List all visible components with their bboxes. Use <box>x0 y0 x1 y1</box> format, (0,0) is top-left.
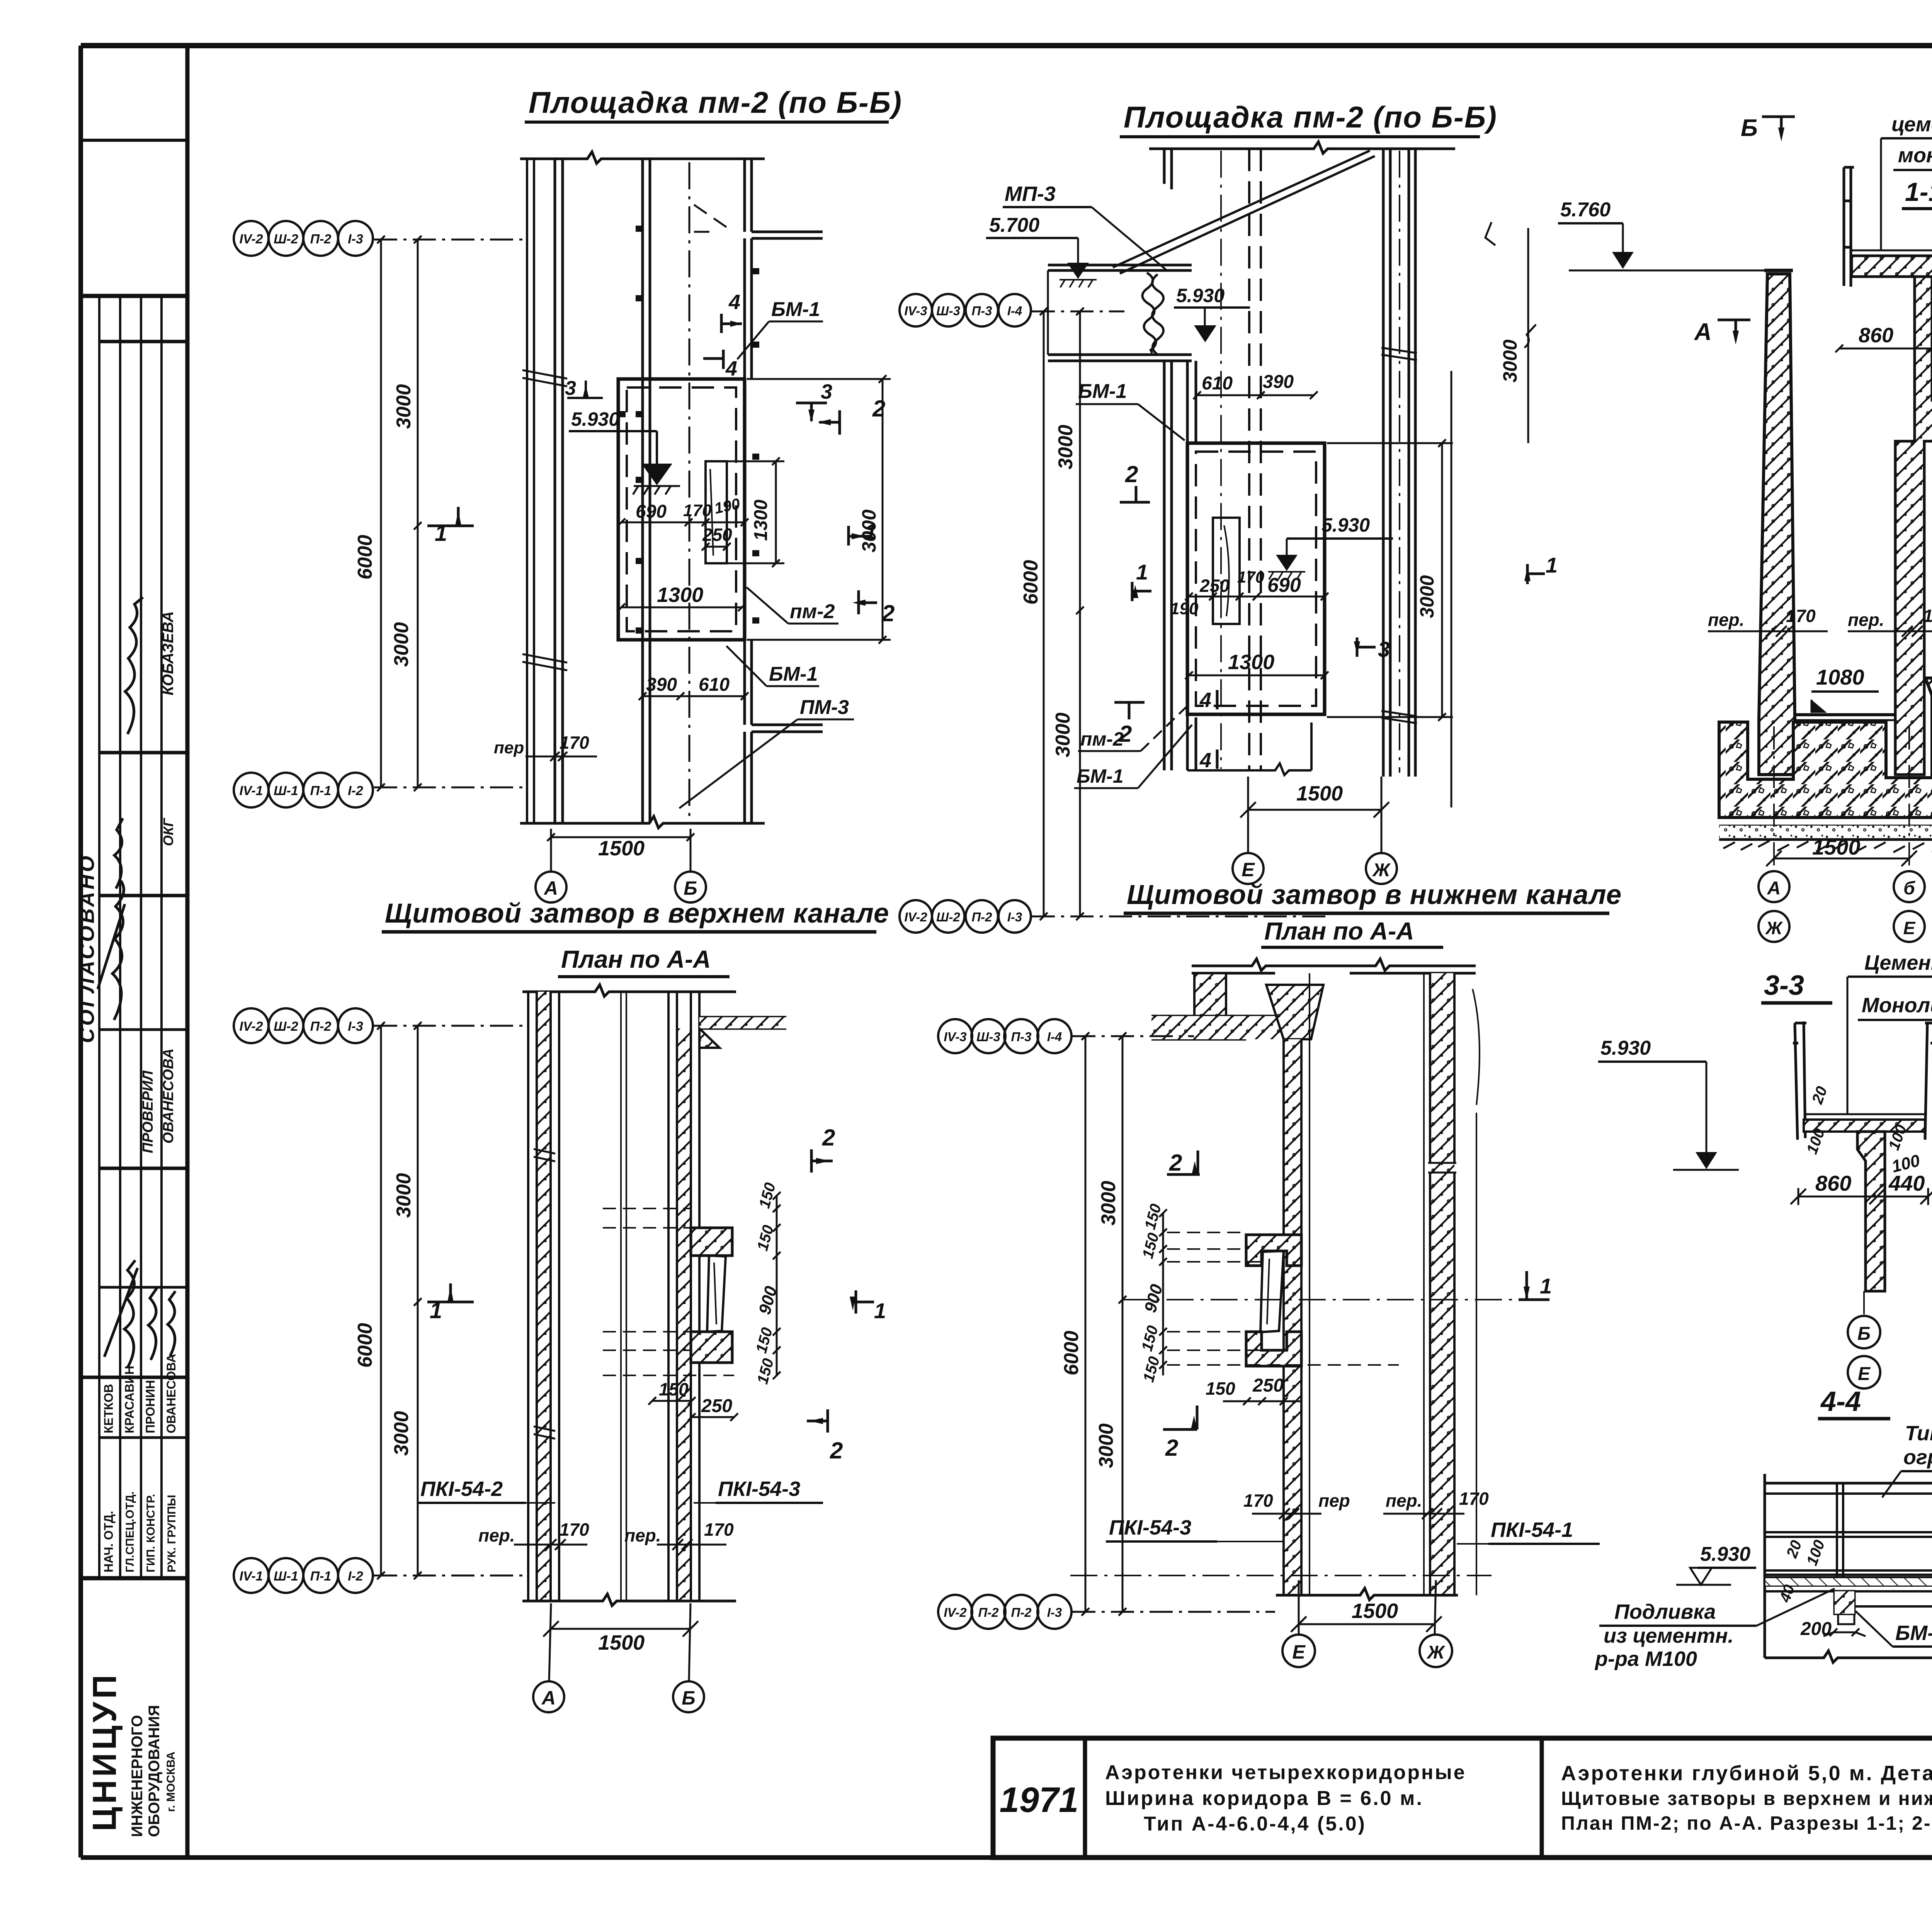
svg-text:б: б <box>1903 878 1915 899</box>
svg-text:1: 1 <box>1540 1274 1552 1298</box>
right wall <box>1383 149 1390 777</box>
svg-text:Е: Е <box>1242 859 1255 880</box>
1500 + axes <box>1291 1580 1442 1634</box>
svg-text:І-3: І-3 <box>348 232 363 246</box>
svg-text:А: А <box>1767 878 1781 899</box>
svg-text:170: 170 <box>1459 1489 1489 1509</box>
svg-text:1300: 1300 <box>657 583 703 607</box>
svg-text:ПКІ-54-3: ПКІ-54-3 <box>718 1477 800 1501</box>
svg-text:390: 390 <box>1263 372 1294 392</box>
svg-text:Типовое: Типовое <box>1905 1422 1932 1445</box>
platform solid rect <box>1187 443 1325 714</box>
svg-text:ОВАНЕСОВА: ОВАНЕСОВА <box>160 1049 177 1144</box>
steel channels on slab <box>1844 167 1932 287</box>
svg-text:250: 250 <box>1199 576 1230 596</box>
grid circles + dims left of view 1 <box>234 221 527 807</box>
svg-text:3000: 3000 <box>1416 575 1438 618</box>
svg-text:1500: 1500 <box>598 837 645 860</box>
svg-text:Щитовой затвор в нижнем канале: Щитовой затвор в нижнем канале <box>1127 880 1622 910</box>
svg-text:БМ-1: БМ-1 <box>1077 765 1124 787</box>
svg-text:Ш-1: Ш-1 <box>274 1569 298 1584</box>
svg-text:4: 4 <box>725 357 737 380</box>
svg-text:ОКГ: ОКГ <box>160 817 176 846</box>
svg-text:ІV-1: ІV-1 <box>239 1569 263 1584</box>
svg-text:1300: 1300 <box>1228 651 1274 674</box>
svg-text:КОБАЗЕВА: КОБАЗЕВА <box>160 611 177 695</box>
svg-text:150: 150 <box>1206 1378 1235 1399</box>
right wall <box>1430 973 1454 1595</box>
vertical dim 1300 right of opening <box>727 457 784 567</box>
svg-text:пер.: пер. <box>1848 610 1884 630</box>
svg-text:2: 2 <box>1165 1435 1178 1461</box>
svg-text:Ш-3: Ш-3 <box>936 304 960 318</box>
svg-text:Ш-1: Ш-1 <box>274 783 298 798</box>
top junction <box>1192 959 1476 973</box>
svg-text:4: 4 <box>728 291 740 314</box>
border frame <box>81 43 1932 48</box>
svg-text:І-3: І-3 <box>1047 1605 1062 1620</box>
svg-text:4: 4 <box>1199 688 1211 712</box>
1500 dim + axes <box>543 1603 698 1681</box>
svg-text:План по А-А: План по А-А <box>561 945 711 973</box>
svg-text:1-1: 1-1 <box>1905 177 1932 207</box>
svg-text:170: 170 <box>704 1519 734 1540</box>
walkway МП-3 <box>1048 265 1192 270</box>
stem with corbel <box>1857 1132 1885 1291</box>
svg-text:Аэротенки глубиной 5,0 м.: Аэротенки глубиной 5,0 м. Детали. <box>1561 1762 1932 1785</box>
steel channels <box>1793 1021 1932 1140</box>
svg-text:2: 2 <box>822 1125 835 1151</box>
svg-text:Площадка пм-2 (по Б-Б): Площадка пм-2 (по Б-Б) <box>1124 100 1497 134</box>
svg-text:Монолитн. ж.б. плита-100: Монолитн. ж.б. плита-100 <box>1862 994 1932 1017</box>
svg-text:План по А-А: План по А-А <box>1264 917 1414 945</box>
dashed detail lines to dim column <box>1167 1232 1399 1365</box>
channel invert lines <box>1795 713 1895 716</box>
svg-text:610: 610 <box>699 675 730 695</box>
svg-text:1080: 1080 <box>1816 665 1864 689</box>
svg-text:пм-2: пм-2 <box>790 600 835 623</box>
top break line <box>522 985 736 996</box>
svg-text:1: 1 <box>865 519 877 544</box>
svg-text:Ж: Ж <box>1765 918 1783 938</box>
svg-text:пер.: пер. <box>624 1525 661 1545</box>
svg-text:690: 690 <box>1267 574 1301 597</box>
svg-text:ІV-2: ІV-2 <box>904 910 927 924</box>
svg-text:6000: 6000 <box>1060 1331 1083 1375</box>
railing elevation <box>1765 1474 1932 1658</box>
svg-text:170: 170 <box>1786 606 1816 626</box>
svg-text:І-4: І-4 <box>1007 304 1022 318</box>
svg-text:5.930: 5.930 <box>1700 1543 1750 1565</box>
gate leaf <box>707 1256 726 1332</box>
svg-text:р-ра М100: р-ра М100 <box>1594 1647 1697 1671</box>
section marks right side <box>796 403 877 614</box>
svg-text:170: 170 <box>560 733 589 753</box>
svg-text:П-1: П-1 <box>310 1569 332 1584</box>
svg-text:П-2: П-2 <box>971 910 992 924</box>
svg-text:1971: 1971 <box>1000 1780 1079 1820</box>
svg-text:І-4: І-4 <box>1047 1030 1062 1044</box>
svg-text:Ширина коридора В = 6.0 м.: Ширина коридора В = 6.0 м. <box>1105 1787 1423 1810</box>
left wall <box>1284 1039 1301 1595</box>
platform ПМ-2 solid rect <box>618 379 745 640</box>
opening in platform <box>706 461 727 563</box>
svg-text:пер.: пер. <box>1708 610 1745 630</box>
svg-text:1500: 1500 <box>1352 1599 1398 1623</box>
svg-text:1: 1 <box>435 521 447 546</box>
svg-text:НАЧ. ОТД.: НАЧ. ОТД. <box>102 1511 116 1572</box>
svg-text:БМ-1: БМ-1 <box>771 298 820 321</box>
svg-text:Ж: Ж <box>1372 860 1391 880</box>
svg-text:І-3: І-3 <box>1007 910 1022 924</box>
svg-text:2: 2 <box>1169 1150 1182 1176</box>
foundation mass <box>1719 678 1932 817</box>
svg-text:5.760: 5.760 <box>1560 199 1611 221</box>
svg-text:г. МОСКВА: г. МОСКВА <box>165 1752 177 1812</box>
svg-text:П-2: П-2 <box>310 1019 332 1034</box>
svg-text:Б: Б <box>684 877 697 899</box>
svg-text:ОВАНЕСОВА: ОВАНЕСОВА <box>164 1354 178 1433</box>
БМ-1 block <box>1835 1591 1854 1614</box>
svg-text:2: 2 <box>1125 461 1138 487</box>
svg-text:1: 1 <box>874 1298 886 1323</box>
left wall top stub + flare <box>1194 973 1226 1016</box>
ground hatch <box>1723 841 1932 854</box>
left wall hatched <box>1759 274 1795 775</box>
svg-text:ІV-1: ІV-1 <box>239 783 263 798</box>
left wall lines <box>526 159 528 823</box>
svg-text:пер.: пер. <box>478 1525 515 1545</box>
svg-text:3000: 3000 <box>1097 1181 1120 1225</box>
svg-text:2: 2 <box>872 396 885 421</box>
level mark triangle <box>641 464 672 485</box>
svg-text:3000: 3000 <box>1499 340 1521 382</box>
svg-text:ІV-2: ІV-2 <box>239 232 263 246</box>
svg-text:ГИП. КОНСТР.: ГИП. КОНСТР. <box>145 1494 157 1572</box>
gate slot protrusions on right wall <box>691 1228 732 1256</box>
svg-text:Е: Е <box>1858 1364 1871 1384</box>
svg-text:План ПМ-2; по А-А. Разрезы 1-1: План ПМ-2; по А-А. Разрезы 1-1; 2-2; 3-3… <box>1561 1812 1932 1834</box>
svg-text:Ж: Ж <box>1426 1642 1446 1663</box>
svg-text:3000: 3000 <box>1054 425 1077 469</box>
svg-text:Б: Б <box>1857 1324 1871 1344</box>
svg-text:Щитовой затвор в верхнем канал: Щитовой затвор в верхнем канале <box>385 898 889 929</box>
top break line <box>1149 142 1455 153</box>
section mark 3 up + level 5.930 <box>567 381 603 398</box>
svg-text:ІV-2: ІV-2 <box>944 1605 967 1620</box>
svg-text:І-2: І-2 <box>348 1569 363 1584</box>
bottom break line <box>1765 1651 1932 1662</box>
svg-text:860: 860 <box>1815 1171 1851 1195</box>
svg-text:ІV-3: ІV-3 <box>944 1030 966 1044</box>
svg-text:СОГЛАСОВАНО: СОГЛАСОВАНО <box>75 853 99 1043</box>
dashed detail lines <box>603 1208 734 1375</box>
mid dash-dot section line <box>1122 1299 1519 1300</box>
svg-text:ЦНИЦУП: ЦНИЦУП <box>86 1672 123 1831</box>
right detail dim column <box>773 1192 781 1379</box>
svg-text:ІV-2: ІV-2 <box>239 1019 263 1034</box>
svg-text:2: 2 <box>881 600 895 626</box>
svg-text:690: 690 <box>636 501 667 522</box>
svg-text:Ш-3: Ш-3 <box>976 1030 1000 1044</box>
left dim column <box>1159 1209 1167 1375</box>
row separators <box>99 340 187 343</box>
svg-text:5.930: 5.930 <box>1600 1037 1651 1059</box>
svg-text:5.930: 5.930 <box>1321 514 1370 536</box>
slab band <box>1765 1576 1932 1579</box>
svg-text:БМ-1: БМ-1 <box>1895 1621 1932 1645</box>
svg-text:1: 1 <box>430 1298 442 1323</box>
svg-text:пер.: пер. <box>1386 1491 1422 1511</box>
joint marks on right wall <box>1381 348 1417 723</box>
stem + corbel + column <box>1895 277 1932 775</box>
svg-text:200: 200 <box>1800 1619 1832 1639</box>
svg-text:ПРОВЕРИЛ: ПРОВЕРИЛ <box>140 1070 156 1153</box>
section marks <box>1163 1151 1549 1429</box>
svg-text:170: 170 <box>1923 606 1932 626</box>
svg-text:3000: 3000 <box>393 1173 415 1218</box>
svg-text:3000: 3000 <box>390 622 413 667</box>
svg-text:170: 170 <box>560 1519 589 1540</box>
slab <box>1804 1113 1925 1115</box>
grid circles + dims left of view 3 <box>234 1008 529 1593</box>
svg-text:3000: 3000 <box>393 384 415 429</box>
svg-text:3000: 3000 <box>390 1411 413 1456</box>
svg-text:1300: 1300 <box>751 500 771 541</box>
right wall <box>677 1028 691 1601</box>
svg-text:1500: 1500 <box>1296 782 1343 805</box>
svg-text:Щитовые затворы в верхнем и ни: Щитовые затворы в верхнем и нижнем канал… <box>1561 1788 1932 1809</box>
svg-text:монол. ж.б. плита: монол. ж.б. плита <box>1898 144 1932 167</box>
below platform box <box>1187 722 1311 775</box>
svg-text:А: А <box>541 1687 556 1709</box>
svg-text:П-2: П-2 <box>978 1605 999 1620</box>
svg-text:3: 3 <box>1378 637 1390 661</box>
svg-text:170: 170 <box>683 501 712 520</box>
signatures (squiggles) <box>98 597 175 1368</box>
svg-text:1: 1 <box>1136 560 1148 584</box>
svg-text:ПМ-3: ПМ-3 <box>800 696 849 719</box>
svg-text:ПКІ-54-2: ПКІ-54-2 <box>420 1477 503 1501</box>
svg-text:МП-3: МП-3 <box>1005 182 1056 206</box>
embedded plate marks <box>619 226 759 634</box>
svg-text:6000: 6000 <box>354 1323 376 1368</box>
svg-text:390: 390 <box>646 675 677 695</box>
platform slab <box>1852 256 1932 277</box>
svg-text:Б: Б <box>1741 115 1758 141</box>
svg-text:3000: 3000 <box>1095 1423 1117 1468</box>
gate slot protrusions on left wall (to the left) <box>1246 1235 1301 1266</box>
dashed junction diagonals <box>694 205 729 232</box>
svg-text:П-1: П-1 <box>310 783 332 798</box>
bottom break line <box>520 816 765 828</box>
svg-text:ГЛ.СПЕЦ.ОТД.: ГЛ.СПЕЦ.ОТД. <box>124 1491 136 1572</box>
svg-text:250: 250 <box>701 1396 732 1416</box>
svg-text:150: 150 <box>659 1379 689 1399</box>
section marks 4 <box>703 314 742 369</box>
panel joint line in channel <box>621 992 626 1601</box>
top-right branch channel <box>752 232 823 238</box>
svg-text:А: А <box>543 877 558 899</box>
svg-text:ПКІ-54-3: ПКІ-54-3 <box>1109 1516 1191 1539</box>
svg-text:пм-2: пм-2 <box>1080 728 1124 750</box>
bottom break <box>1276 1588 1458 1600</box>
right wall with branch openings <box>745 159 752 232</box>
svg-text:Аэротенки четырехкоридорные: Аэротенки четырехкоридорные <box>1105 1761 1466 1784</box>
svg-text:Ш-2: Ш-2 <box>274 1019 298 1034</box>
inner verticals of rotated table <box>98 296 100 1578</box>
svg-text:Тип А-4-6.0-4,4 (5.0): Тип А-4-6.0-4,4 (5.0) <box>1144 1813 1366 1835</box>
svg-text:І-2: І-2 <box>348 783 363 798</box>
grid circles + dims left of view 4 <box>938 1019 1275 1629</box>
svg-text:Ш-2: Ш-2 <box>274 232 298 246</box>
centreline + axis circles <box>1863 1291 1865 1314</box>
platform dashed inner <box>627 387 736 631</box>
hidden wall dashed pair <box>1249 149 1261 770</box>
top break line <box>520 152 765 163</box>
centerline of channel <box>1220 151 1222 769</box>
left wall pair outer <box>1164 149 1172 189</box>
svg-text:6000: 6000 <box>354 535 376 580</box>
svg-text:Ш-2: Ш-2 <box>936 910 960 924</box>
svg-text:1500: 1500 <box>598 1631 645 1654</box>
section marks right <box>807 1149 874 1433</box>
left wall <box>537 992 551 1601</box>
svg-text:190: 190 <box>1170 599 1199 618</box>
svg-text:ІV-3: ІV-3 <box>904 304 927 318</box>
svg-text:цементный пол-20: цементный пол-20 <box>1891 113 1932 136</box>
svg-text:440: 440 <box>1888 1171 1925 1195</box>
central wall <box>641 159 644 823</box>
svg-text:ПКІ-54-1: ПКІ-54-1 <box>1491 1518 1573 1542</box>
lower right branch ПМ-3 <box>752 725 823 732</box>
rotated stamp texts + signatures <box>75 597 178 1837</box>
svg-text:4-4: 4-4 <box>1820 1386 1861 1417</box>
svg-text:250: 250 <box>702 525 732 545</box>
svg-text:3000: 3000 <box>1052 712 1074 757</box>
svg-text:2: 2 <box>830 1438 843 1463</box>
svg-text:Цементный пол-20: Цементный пол-20 <box>1864 951 1932 974</box>
vertical dim 3000 right <box>747 375 891 644</box>
ladder chain <box>1142 273 1156 353</box>
svg-text:5.930: 5.930 <box>1176 285 1225 306</box>
svg-text:КЕТКОВ: КЕТКОВ <box>102 1384 116 1433</box>
grid circles + dims left of view 2 <box>900 294 1325 933</box>
svg-text:БМ-1: БМ-1 <box>1078 380 1127 403</box>
1500 dim + axes <box>1766 726 1917 871</box>
svg-text:огражден. КЭ-03-1: огражден. КЭ-03-1 <box>1903 1446 1932 1469</box>
svg-text:пер: пер <box>494 738 524 757</box>
svg-text:І-3: І-3 <box>348 1019 363 1034</box>
svg-text:Е: Е <box>1903 918 1916 938</box>
svg-text:860: 860 <box>1859 324 1893 347</box>
svg-text:из цементн.: из цементн. <box>1604 1624 1734 1647</box>
svg-text:БМ-1: БМ-1 <box>769 663 818 685</box>
bracket diagonal <box>1113 151 1375 274</box>
svg-text:Б: Б <box>682 1687 695 1709</box>
svg-text:П-3: П-3 <box>1011 1030 1031 1044</box>
dim 1500 + axis circles <box>547 829 694 872</box>
right dim chain <box>1327 222 1536 807</box>
svg-text:170: 170 <box>1237 568 1264 586</box>
svg-text:5.930: 5.930 <box>571 408 619 430</box>
svg-text:5.700: 5.700 <box>989 214 1039 236</box>
svg-text:ПРОНИН: ПРОНИН <box>143 1380 157 1433</box>
svg-text:250: 250 <box>1252 1375 1284 1396</box>
section mark 1 <box>427 507 474 526</box>
svg-text:3: 3 <box>565 377 576 399</box>
svg-text:РУК. ГРУППЫ: РУК. ГРУППЫ <box>165 1495 178 1572</box>
wall joint breaks <box>522 370 567 386</box>
svg-text:П-2: П-2 <box>1011 1605 1032 1620</box>
svg-text:А: А <box>1694 319 1712 345</box>
bottom dash-dot grid line <box>1070 1575 1492 1576</box>
svg-text:4: 4 <box>1199 749 1211 772</box>
svg-text:Площадка пм-2 (по Б-Б): Площадка пм-2 (по Б-Б) <box>529 85 902 119</box>
svg-text:170: 170 <box>1243 1491 1273 1511</box>
gate leaf <box>1260 1251 1284 1332</box>
svg-text:Подливка: Подливка <box>1614 1600 1716 1623</box>
centerline dash-dot <box>689 162 690 821</box>
svg-text:КРАСАВИН: КРАСАВИН <box>122 1366 136 1433</box>
svg-text:Е: Е <box>1292 1641 1306 1663</box>
svg-text:пер: пер <box>1318 1491 1350 1511</box>
svg-text:П-3: П-3 <box>971 304 992 318</box>
svg-text:ИНЖЕНЕРНОГО: ИНЖЕНЕРНОГО <box>129 1715 146 1837</box>
bottom break line <box>522 1594 736 1606</box>
top flare of right wall <box>699 1017 786 1028</box>
svg-text:1500: 1500 <box>1812 835 1861 859</box>
svg-text:3-3: 3-3 <box>1764 970 1804 1001</box>
section marks <box>1114 486 1545 719</box>
svg-text:3: 3 <box>821 380 832 403</box>
opening <box>1213 518 1240 624</box>
svg-text:П-2: П-2 <box>310 232 332 246</box>
svg-text:6000: 6000 <box>1020 560 1042 605</box>
svg-text:1: 1 <box>1546 553 1558 577</box>
svg-text:610: 610 <box>1202 373 1233 394</box>
svg-text:ОБОРУДОВАНИЯ: ОБОРУДОВАНИЯ <box>146 1705 163 1837</box>
